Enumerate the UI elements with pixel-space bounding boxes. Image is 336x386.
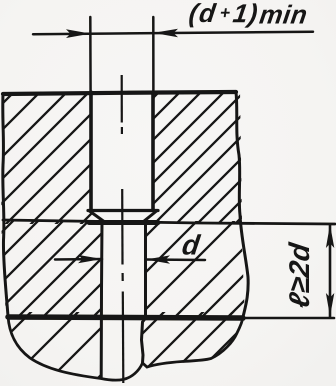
right chamfer line xyxy=(144,211,157,222)
narrow hole left wall xyxy=(100,221,104,377)
narrow hole right wall xyxy=(142,221,146,363)
d dimension arrow pointing left xyxy=(146,255,170,263)
label d xyxy=(182,234,202,255)
wide hole right wall xyxy=(151,92,155,210)
counterbore shoulder line xyxy=(88,209,158,212)
joint line between plates (extends right as extension line) xyxy=(3,220,335,224)
depth dimension arrow pointing down xyxy=(326,293,334,317)
top dimension arrow pointing right xyxy=(66,29,91,38)
left broken edge of block xyxy=(3,94,8,316)
top surface line of upper plate xyxy=(3,92,236,94)
d dimension line left segment xyxy=(55,258,102,261)
thick joint segment across hole mouth xyxy=(89,220,158,225)
wide hole left wall xyxy=(89,92,93,210)
hole centerline (dash-dot) xyxy=(122,75,124,383)
extension line above wide hole right wall xyxy=(152,17,155,99)
bottom line extension to the dimension xyxy=(243,317,334,320)
depth dimension arrow pointing up xyxy=(326,225,334,249)
top dimension line xyxy=(33,32,313,35)
hatching upper-left of block xyxy=(0,60,245,386)
right broken edge of block xyxy=(236,92,248,317)
label l>=2d rotated xyxy=(288,241,309,308)
label (d+1)min xyxy=(188,3,217,27)
d dimension line right segment xyxy=(146,258,205,261)
d dimension arrow pointing right xyxy=(78,255,102,263)
bottom line of lower plate xyxy=(8,317,243,318)
freehand break outline of bottom strip xyxy=(8,316,243,380)
top dimension arrow pointing left xyxy=(153,29,178,38)
vertical dimension line for pin depth xyxy=(329,225,332,317)
left chamfer line xyxy=(90,211,105,222)
extension line above wide hole left wall xyxy=(89,17,92,99)
